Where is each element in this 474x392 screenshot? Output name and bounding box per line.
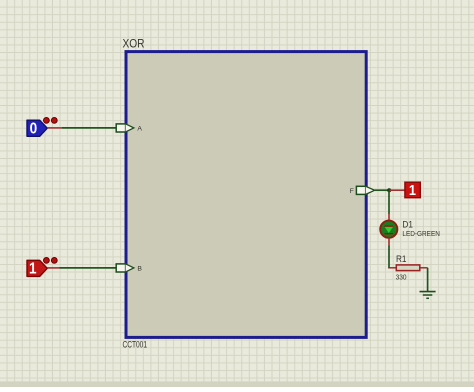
svg-text:R1: R1 [396,254,407,264]
svg-text:D1: D1 [402,219,413,229]
wire logic state 0 to port A [62,127,116,129]
logic probe showing 1 [405,181,420,198]
svg-text:F: F [350,188,354,195]
toggle dot 1 of logic state 0 [44,118,50,124]
svg-text:1: 1 [409,181,416,198]
LED anode pin (red segment) [388,214,390,221]
pin of logic state 0 (red segment) [47,127,62,129]
logic state 0 (input A source) [27,120,47,138]
LED D1 [380,221,397,238]
LED cathode pin (red segment) [388,238,390,246]
output port F [356,186,374,194]
svg-text:A: A [137,125,142,132]
input port B [116,264,134,272]
svg-text:LED-GREEN: LED-GREEN [402,229,440,238]
svg-text:CCT001: CCT001 [123,340,148,350]
ground symbol [420,292,436,299]
XOR subcircuit box CCT001 [126,52,366,338]
pin of logic probe (red segment) [389,189,405,191]
logic state 1 (input B source) [27,260,47,278]
toggle dot 1 of logic state 1 [44,258,50,264]
junction node [387,188,391,192]
resistor R1 [388,265,427,271]
svg-text:B: B [137,265,142,272]
svg-text:XOR: XOR [123,37,145,51]
toggle dot 2 of logic state 1 [51,258,57,264]
svg-text:0: 0 [30,121,38,138]
input port A [116,124,134,132]
wire resistor to ground [427,268,429,292]
pin of logic state 1 (red segment) [47,267,59,269]
wire logic state 1 to port B [60,267,117,269]
toggle dot 2 of logic state 0 [51,118,57,124]
svg-text:330: 330 [396,272,407,281]
svg-text:1: 1 [29,261,37,278]
wire port F to junction [375,189,390,191]
wire LED to resistor [388,246,390,269]
wire junction down to LED [388,190,390,214]
